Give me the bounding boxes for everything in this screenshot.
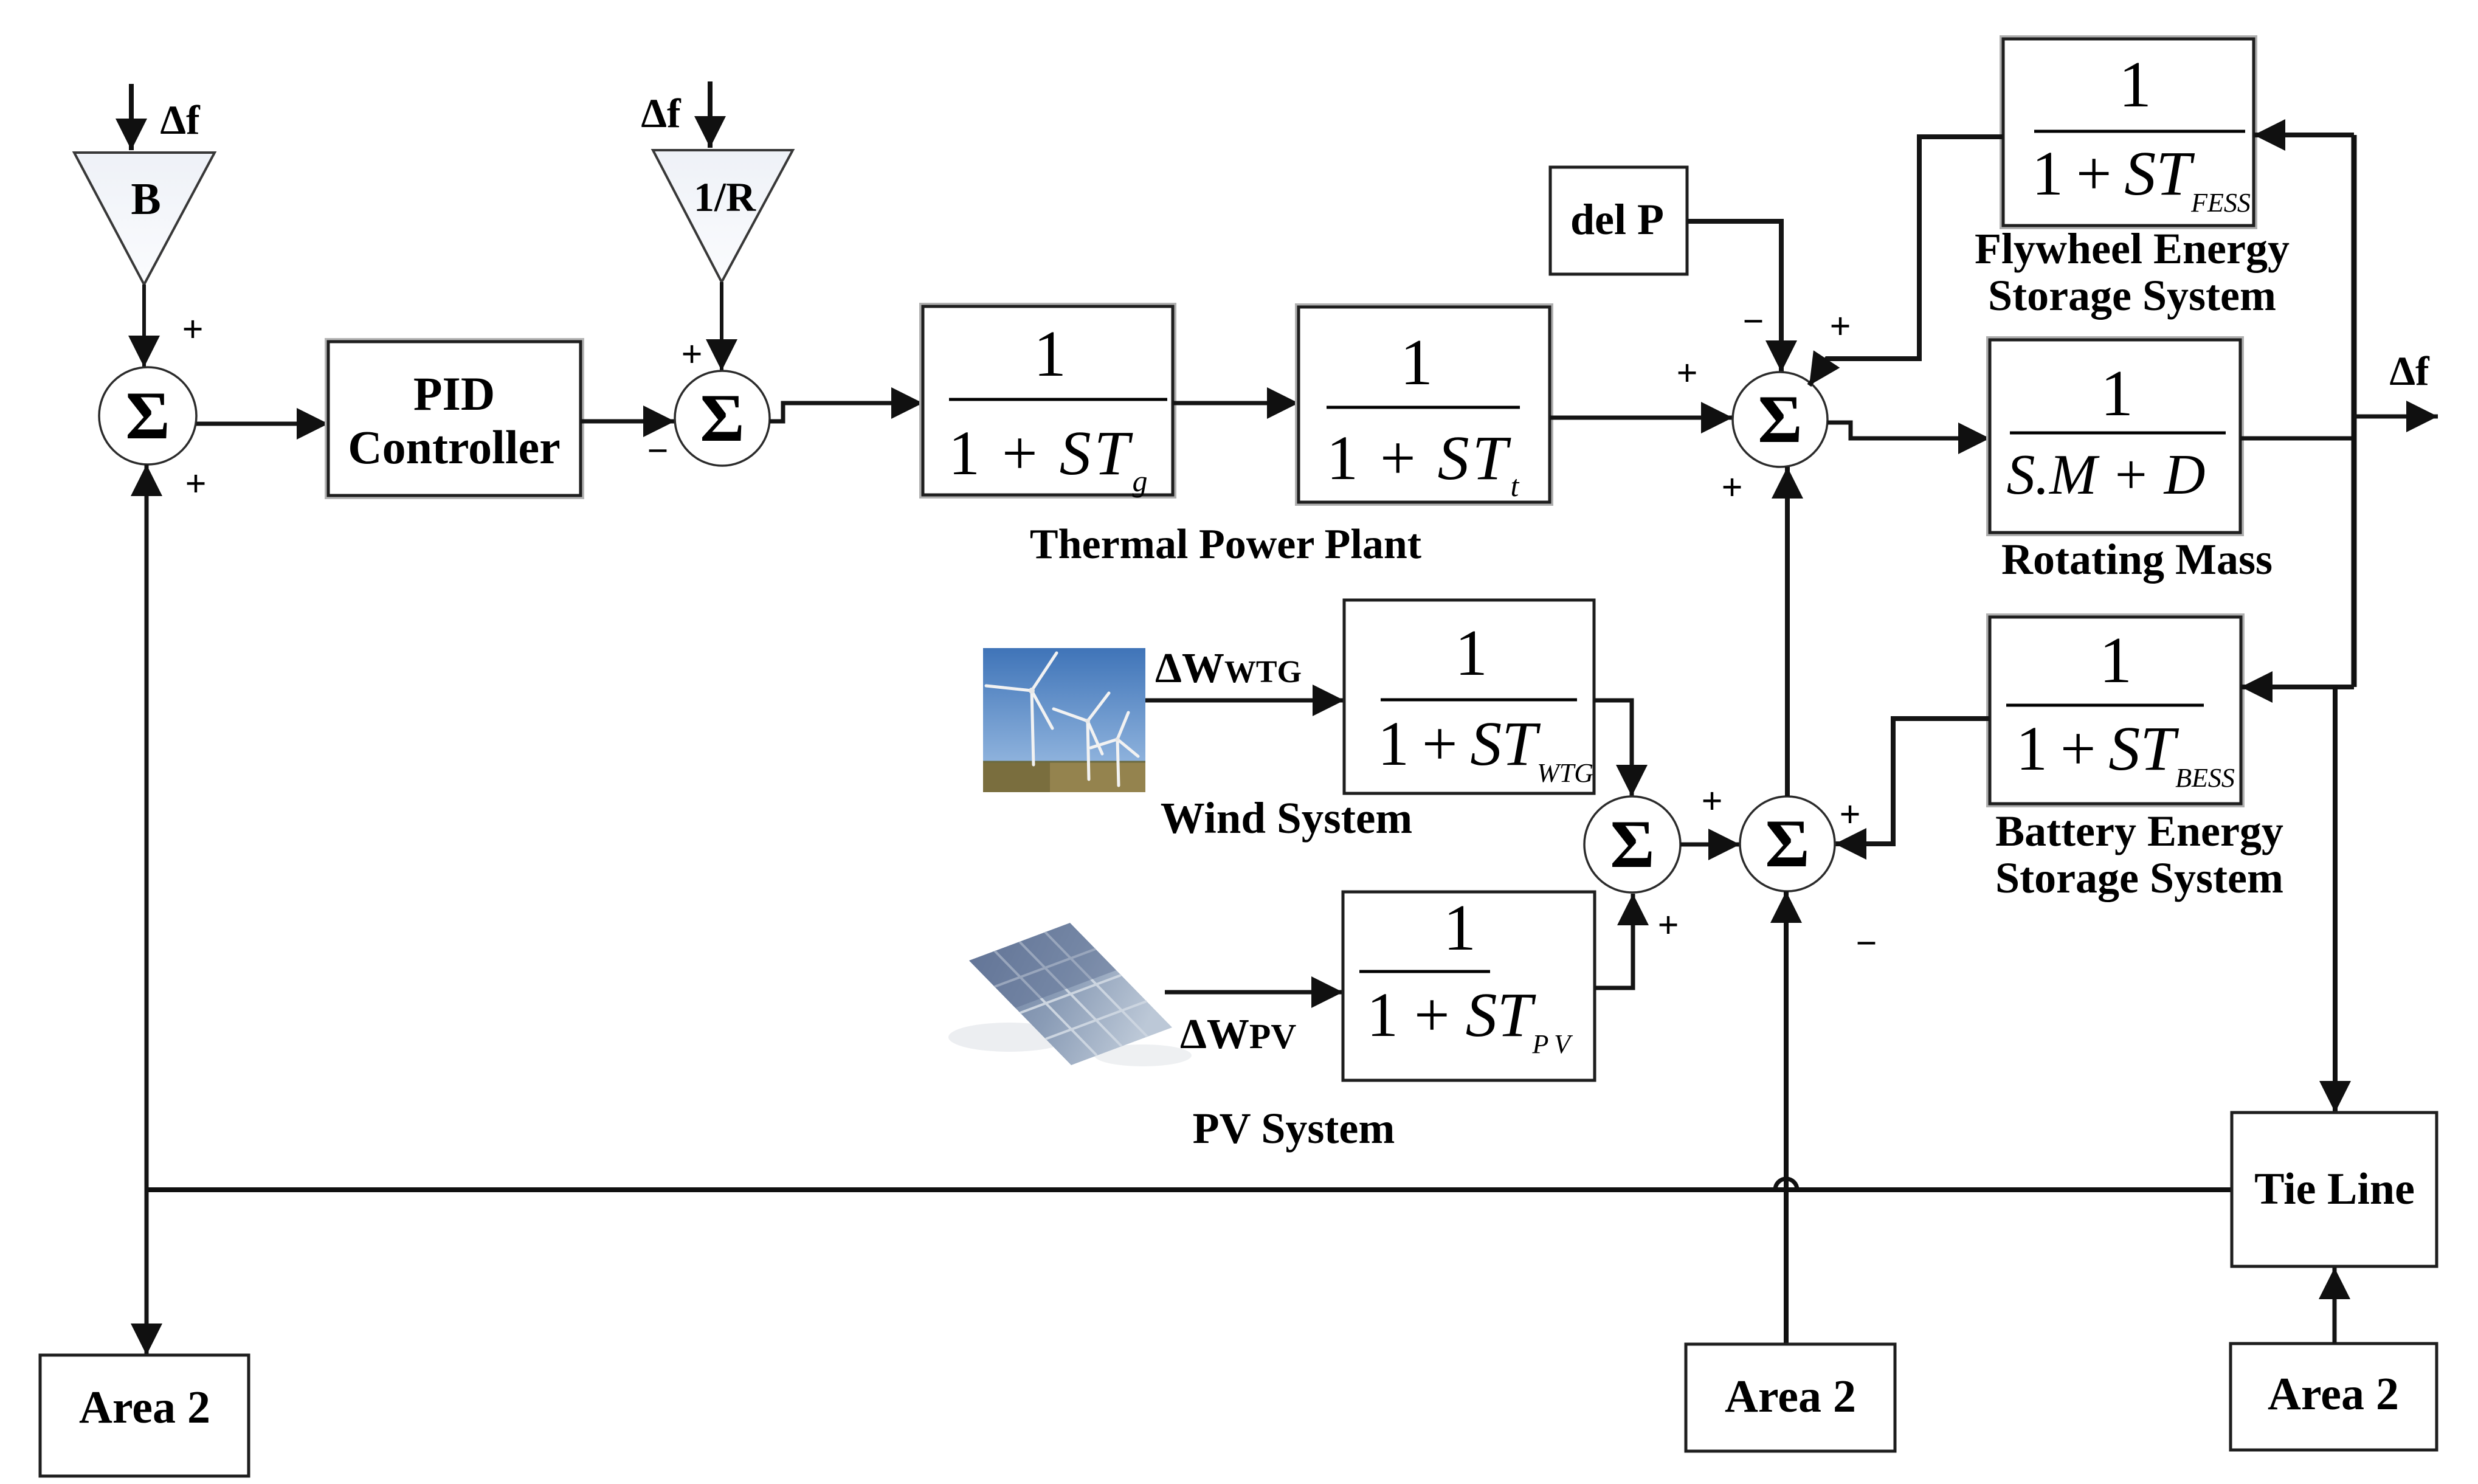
svg-text:1: 1 — [2100, 357, 2133, 430]
svg-text:ΔWPV: ΔWPV — [1180, 1011, 1296, 1058]
summer S4 — [1740, 796, 1835, 891]
wire: S2 output to governor block — [770, 403, 923, 421]
svg-text:Flywheel Energy: Flywheel Energy — [1975, 224, 2290, 273]
svg-text:Wind System: Wind System — [1161, 793, 1412, 843]
svg-text:PID: PID — [413, 367, 495, 420]
summer S3 — [1733, 372, 1827, 467]
svg-text:−: − — [1742, 301, 1764, 342]
wire: feedback into BESS right side — [2241, 685, 2354, 689]
wire hop over bus line — [1775, 1179, 1797, 1190]
wire: feedback up into S1 bottom — [145, 464, 149, 1190]
wire: PV input to PV block — [1165, 990, 1343, 995]
svg-text:1: 1 — [1034, 318, 1066, 390]
wire: Area 2 middle up to S4 bottom — [1784, 891, 1789, 1344]
wire: right feedback vertical line — [2352, 135, 2357, 687]
svg-text:Δf: Δf — [160, 97, 201, 143]
svg-text:Area 2: Area 2 — [2268, 1368, 2399, 1420]
svg-text:1: 1 — [2119, 49, 2152, 121]
svg-text:+: + — [1701, 781, 1722, 822]
wire: S4 output up to summer S3 — [1785, 467, 1790, 796]
svg-text:Rotating Mass: Rotating Mass — [2001, 535, 2273, 584]
svg-text:+: + — [1829, 306, 1851, 347]
svg-text:+: + — [1657, 905, 1679, 946]
block governor 1/(1+STg) — [920, 304, 1175, 497]
wire: feedback into FESS right side — [2254, 133, 2354, 137]
svg-text:Thermal Power Plant: Thermal Power Plant — [1030, 521, 1421, 568]
svg-text:B: B — [131, 174, 160, 224]
wire: PID output to summer S2 — [581, 419, 675, 424]
svg-text:+: + — [681, 334, 702, 375]
wire: del P to summer S3 — [1687, 221, 1781, 372]
wire: drop to Area 2 left — [145, 1190, 149, 1355]
summer S5 — [1584, 796, 1680, 892]
wire: 1/R output into summer S2 — [720, 282, 723, 371]
svg-text:Σ: Σ — [700, 381, 744, 456]
summer S1 — [99, 367, 196, 464]
wire: rotating mass output to node — [2240, 437, 2352, 441]
svg-text:PV System: PV System — [1193, 1104, 1395, 1153]
wire: input arrow above gain B — [129, 84, 134, 150]
svg-text:Controller: Controller — [348, 421, 560, 474]
wire: S1 output to PID controller — [196, 422, 328, 426]
svg-text:−: − — [1855, 923, 1877, 964]
svg-text:S.M + D: S.M + D — [2006, 443, 2205, 506]
summer S2 — [675, 371, 770, 466]
svg-text:Σ: Σ — [125, 378, 170, 454]
svg-text:Σ: Σ — [1758, 382, 1802, 457]
wire: B output into summer S1 — [142, 285, 146, 367]
svg-text:+: + — [1839, 794, 1860, 835]
wire: Area 2 right up to Tie Line — [2333, 1268, 2337, 1344]
svg-text:Δf: Δf — [2389, 348, 2430, 394]
wire: PV output to summer S5 — [1595, 894, 1633, 988]
svg-text:1: 1 — [1400, 326, 1433, 399]
svg-text:+: + — [1676, 353, 1697, 394]
wire: input arrow above gain 1/R — [708, 81, 713, 148]
svg-text:Storage System: Storage System — [1995, 854, 2283, 902]
block Area 2 (left) — [40, 1355, 249, 1476]
wire: long bottom tie line bus — [147, 1187, 2232, 1192]
svg-text:Σ: Σ — [1765, 806, 1809, 882]
image solar PV panels — [948, 923, 1192, 1066]
block rotating mass 1/(S.M+D) — [1987, 337, 2243, 535]
image wind turbines — [983, 648, 1145, 792]
svg-text:1 + STt: 1 + STt — [1327, 423, 1522, 503]
wire: S5 output to summer S4 — [1680, 843, 1740, 847]
gain block 1/R (triangle) — [653, 150, 793, 282]
wire: governor to turbine block — [1173, 401, 1299, 406]
svg-text:1: 1 — [1443, 892, 1476, 964]
block Tie Line — [2232, 1113, 2437, 1266]
block BESS 1/(1+ST_BESS) — [1987, 615, 2243, 806]
wire: WTG output to summer S5 — [1594, 700, 1632, 796]
svg-text:Area 2: Area 2 — [79, 1382, 210, 1433]
svg-text:Battery Energy: Battery Energy — [1995, 807, 2283, 855]
svg-text:Δf: Δf — [641, 90, 682, 136]
svg-text:+: + — [1721, 467, 1742, 508]
block turbine 1/(1+STt) — [1296, 305, 1552, 505]
block Area 2 (middle) — [1686, 1344, 1895, 1451]
svg-text:1: 1 — [2099, 624, 2132, 697]
svg-text:Tie Line: Tie Line — [2254, 1164, 2415, 1214]
wire: BESS output to summer S4 — [1835, 719, 1990, 844]
svg-text:1: 1 — [1455, 617, 1488, 689]
block FESS 1/(1+ST_FESS) — [2001, 36, 2256, 228]
svg-text:Area 2: Area 2 — [1725, 1371, 1856, 1422]
svg-text:1 + STg: 1 + STg — [948, 418, 1151, 498]
wire: Δf output arrow — [2354, 415, 2438, 419]
wire: wind system input to WTG block — [1145, 699, 1344, 703]
svg-text:−: − — [647, 430, 668, 472]
wire: FESS output to summer S3 — [1809, 137, 2003, 385]
wire: drop to Tie Line block — [2333, 687, 2338, 1113]
wire: turbine output to summer S3 — [1550, 416, 1733, 420]
block WTG 1/(1+ST_WTG) — [1344, 600, 1594, 793]
svg-text:del P: del P — [1570, 195, 1664, 244]
svg-text:+: + — [182, 309, 203, 350]
block Area 2 (right) — [2231, 1344, 2437, 1450]
svg-text:Storage System: Storage System — [1988, 271, 2276, 320]
svg-text:1/R: 1/R — [694, 174, 756, 220]
svg-text:+: + — [185, 463, 206, 505]
wire: S3 output to rotating mass block — [1827, 423, 1990, 438]
svg-text:Σ: Σ — [1610, 807, 1654, 882]
block PID Controller — [326, 339, 583, 498]
block del P — [1550, 167, 1687, 274]
block PV 1/(1+ST_PV) — [1343, 892, 1595, 1080]
gain block B (triangle) — [74, 153, 215, 285]
